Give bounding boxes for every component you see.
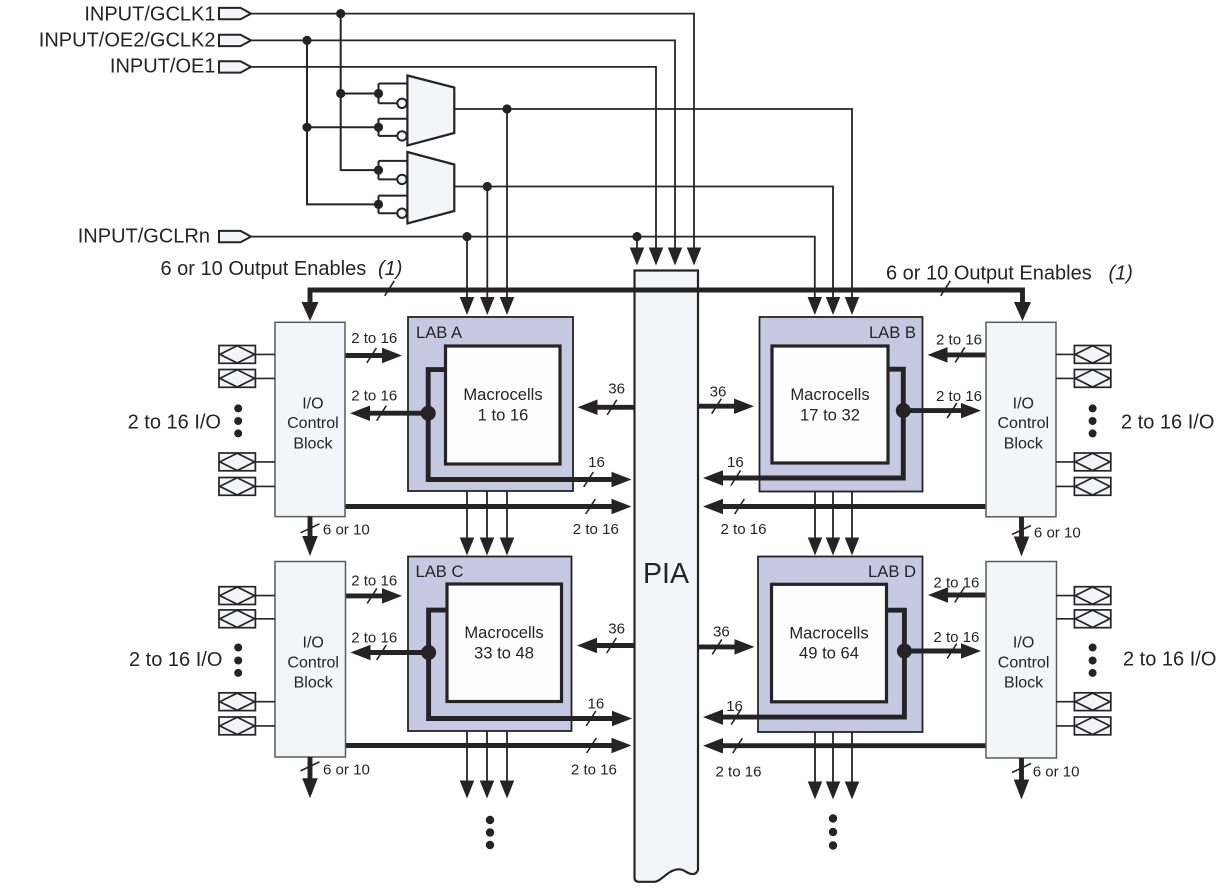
- svg-text:49 to 64: 49 to 64: [799, 644, 859, 663]
- svg-text:2 to 16: 2 to 16: [351, 388, 397, 405]
- svg-text:36: 36: [608, 620, 625, 637]
- svg-text:16: 16: [726, 698, 743, 715]
- svg-text:6 or 10: 6 or 10: [1034, 525, 1081, 542]
- svg-text:Macrocells: Macrocells: [789, 623, 868, 642]
- svg-text:1 to 16: 1 to 16: [478, 405, 529, 424]
- svg-text:2 to 16 I/O: 2 to 16 I/O: [128, 412, 221, 434]
- svg-text:2 to 16 I/O: 2 to 16 I/O: [1123, 649, 1216, 671]
- svg-text:36: 36: [710, 383, 727, 400]
- svg-text:6 or 10 Output Enables: 6 or 10 Output Enables: [886, 263, 1092, 285]
- svg-text:Block: Block: [1004, 435, 1044, 452]
- svg-text:16: 16: [588, 696, 605, 713]
- svg-text:2 to 16: 2 to 16: [351, 629, 397, 646]
- svg-text:LAB D: LAB D: [868, 562, 916, 581]
- svg-text:2 to 16: 2 to 16: [936, 388, 982, 405]
- svg-text:Control: Control: [998, 415, 1050, 432]
- svg-text:PIA: PIA: [643, 558, 689, 590]
- svg-text:6 or 10: 6 or 10: [323, 761, 370, 778]
- svg-text:17 to 32: 17 to 32: [800, 405, 860, 424]
- svg-text:2 to 16: 2 to 16: [933, 574, 979, 591]
- svg-text:INPUT/GCLRn: INPUT/GCLRn: [78, 225, 210, 247]
- svg-text:I/O: I/O: [1013, 635, 1034, 652]
- svg-text:Control: Control: [287, 415, 339, 432]
- svg-text:2 to 16: 2 to 16: [936, 331, 982, 348]
- svg-text:2 to 16: 2 to 16: [573, 521, 619, 538]
- svg-text:LAB C: LAB C: [416, 562, 464, 581]
- svg-text:6 or 10: 6 or 10: [1033, 764, 1080, 781]
- svg-text:Macrocells: Macrocells: [463, 385, 542, 404]
- svg-text:Macrocells: Macrocells: [464, 623, 543, 642]
- svg-text:2 to 16: 2 to 16: [933, 629, 979, 646]
- svg-text:16: 16: [727, 454, 744, 471]
- svg-text:2 to 16: 2 to 16: [721, 521, 767, 538]
- svg-text:2 to 16 I/O: 2 to 16 I/O: [129, 649, 222, 671]
- svg-text:LAB B: LAB B: [869, 323, 916, 342]
- svg-text:36: 36: [608, 381, 625, 398]
- svg-text:INPUT/OE1: INPUT/OE1: [110, 56, 216, 78]
- svg-text:2 to 16: 2 to 16: [351, 330, 397, 347]
- svg-text:INPUT/GCLK1: INPUT/GCLK1: [84, 3, 215, 25]
- svg-text:2 to 16: 2 to 16: [351, 572, 397, 589]
- svg-text:Macrocells: Macrocells: [790, 385, 869, 404]
- svg-text:2 to 16: 2 to 16: [571, 762, 617, 779]
- svg-text:Block: Block: [294, 675, 334, 692]
- svg-text:I/O: I/O: [1013, 395, 1034, 412]
- svg-text:Block: Block: [1004, 675, 1044, 692]
- svg-text:6 or 10: 6 or 10: [323, 522, 370, 539]
- svg-text:I/O: I/O: [303, 635, 324, 652]
- svg-text:LAB A: LAB A: [416, 323, 463, 342]
- svg-text:2 to 16: 2 to 16: [716, 764, 762, 781]
- svg-text:16: 16: [588, 454, 605, 471]
- svg-text:(1): (1): [1109, 263, 1133, 285]
- svg-text:33 to 48: 33 to 48: [474, 643, 534, 662]
- svg-text:6 or 10 Output Enables: 6 or 10 Output Enables: [161, 258, 367, 280]
- svg-text:(1): (1): [378, 258, 402, 280]
- svg-text:Control: Control: [998, 654, 1050, 671]
- svg-text:36: 36: [713, 624, 730, 641]
- svg-text:Control: Control: [287, 654, 339, 671]
- svg-text:INPUT/OE2/GCLK2: INPUT/OE2/GCLK2: [39, 30, 216, 52]
- svg-text:I/O: I/O: [302, 395, 323, 412]
- svg-text:Block: Block: [293, 435, 333, 452]
- svg-text:2 to 16 I/O: 2 to 16 I/O: [1121, 412, 1214, 434]
